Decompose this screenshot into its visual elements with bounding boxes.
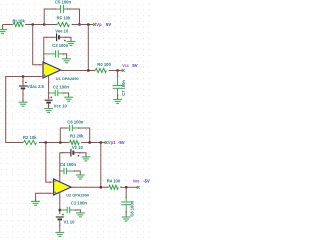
resistor Ri 10k: [12, 18, 27, 26]
svg-text:U1 OPA2890: U1 OPA2890: [56, 76, 79, 81]
wire: ground to Ri: [3, 24, 13, 26]
svg-text:Vee 10: Vee 10: [55, 29, 69, 34]
resistor R1 20k: [68, 133, 84, 144]
voltage source V2 10: [62, 145, 84, 157]
capacitor C2 100n: [49, 84, 69, 96]
wire: U1 V- pin down: [48, 76, 50, 100]
ground (C4): [76, 175, 85, 179]
ground (Vdac): [19, 102, 28, 106]
svg-text:U2 OPA2890: U2 OPA2890: [66, 193, 89, 198]
wire: feedback vertical: [87, 25, 89, 71]
capacitor C7 100n: [113, 75, 126, 95]
svg-text:-5V: -5V: [118, 140, 125, 145]
svg-text:R1 20k: R1 20k: [70, 133, 84, 138]
voltage source Vdac 2.5: [19, 82, 45, 90]
node Vcc 5V: [121, 63, 138, 72]
node Vp1 -5V: [103, 140, 124, 145]
ground (Vee+): [67, 42, 76, 46]
resistor R2 10k: [22, 135, 40, 145]
wire: C5 right branch: [68, 9, 81, 26]
wire: C3 to ground: [63, 54, 67, 59]
ground (C2): [64, 97, 73, 101]
wire: C2 to ground: [63, 93, 68, 97]
capacitor C6 100n: [65, 120, 83, 132]
wire: C7 to ground: [117, 95, 119, 99]
svg-text:V2 10: V2 10: [72, 145, 84, 150]
wire: Ri to node (junction to U1 -in): [26, 23, 44, 25]
svg-text:C7 100n: C7 100n: [121, 80, 126, 96]
svg-text:5V: 5V: [132, 63, 137, 68]
wire: Vee- to U1 V+ pin / C3 junction: [43, 37, 47, 62]
svg-text:Ri 10k: Ri 10k: [13, 18, 26, 23]
node: feedback junction left: [43, 23, 45, 25]
wire: R2 to R1: [39, 141, 69, 143]
wire: RF to Vp node: [72, 23, 93, 25]
wire: Vcc node to C7: [117, 71, 119, 76]
wire: C4 to ground: [75, 171, 81, 175]
wire: V2+ to ground: [80, 153, 86, 157]
capacitor C5 100n: [55, 0, 72, 13]
wire: U2 output: [71, 186, 108, 188]
capacitor C3 100n: [45, 43, 69, 58]
ground (V2+): [82, 157, 91, 161]
wire: U1 output: [61, 69, 95, 71]
svg-text:C5 100n: C5 100n: [55, 0, 72, 5]
resistor R0 100: [94, 62, 112, 73]
ground (Vcc10): [44, 109, 53, 113]
ground (V1): [55, 233, 64, 237]
svg-text:Vdac 2.5: Vdac 2.5: [27, 84, 45, 89]
op-amp U1 OPA2890: [40, 62, 79, 81]
svg-text:R4 100: R4 100: [107, 179, 121, 184]
op-amp U2 OPA2890: [50, 179, 89, 198]
svg-text:Vcc 10: Vcc 10: [54, 103, 68, 108]
svg-text:C6 100n: C6 100n: [67, 120, 84, 125]
wire: U2 V- pin down: [59, 192, 61, 215]
svg-text:C4 100n: C4 100n: [60, 162, 77, 167]
voltage source V1 10: [56, 214, 75, 225]
wire: U1 +in rail / left rail: [6, 75, 41, 142]
wire: inverting input feed: [33, 25, 41, 66]
svg-text:RF 10k: RF 10k: [57, 16, 71, 21]
wire: Vdac to ground: [22, 89, 24, 102]
wire: V2- to U2 V+ pin / C4 junction: [59, 153, 63, 182]
wire: U2 feedback vertical: [100, 143, 102, 188]
wire: U2 +in to ground: [35, 193, 51, 202]
svg-text:V1 10: V1 10: [64, 219, 76, 224]
svg-text:C2 100n: C2 100n: [53, 84, 70, 89]
wire: R0 to Vcc node: [109, 69, 121, 71]
wire: C5 left branch: [44, 9, 55, 25]
voltage source Vee 10: [46, 29, 69, 42]
resistor RF 10k: [56, 16, 73, 27]
resistor R4 100: [107, 179, 122, 190]
wire: Vdac top: [22, 77, 24, 86]
wire: C6 right branch: [79, 128, 90, 143]
wire: C8 to ground: [125, 212, 127, 217]
wire: R1 to Vp1 node: [82, 141, 104, 143]
ground (C1): [76, 213, 85, 217]
wire: V1 to ground: [59, 220, 61, 232]
svg-text:C3 100n: C3 100n: [52, 43, 69, 48]
capacitor C8 100n: [121, 197, 134, 217]
svg-text:C1 100n: C1 100n: [71, 200, 88, 205]
svg-text:Vp1: Vp1: [108, 140, 116, 145]
ground (C3): [62, 59, 71, 63]
svg-text:R2 10k: R2 10k: [23, 135, 37, 140]
wire: Vcc10 to ground: [48, 103, 50, 108]
wire: C6 left branch: [60, 128, 66, 143]
wire: U2 -in feed: [46, 143, 51, 183]
node Vp 5V: [92, 22, 111, 27]
ground (C8): [122, 217, 131, 221]
ground (C7): [113, 100, 122, 104]
svg-text:-5V: -5V: [143, 179, 150, 184]
svg-text:C8 100n: C8 100n: [130, 200, 135, 216]
ground (U2 +in): [31, 201, 40, 205]
wire: R4 to Vee node: [121, 186, 136, 188]
svg-text:R0 100: R0 100: [97, 62, 111, 67]
node Vee -5V: [133, 179, 150, 189]
wire: node to RF: [44, 24, 56, 26]
svg-text:Vee: Vee: [133, 179, 140, 184]
capacitor C1 100n: [60, 200, 87, 213]
wire: Vee node to C8: [125, 187, 127, 197]
wire: Vee+ to ground: [66, 37, 71, 41]
svg-text:Vcc: Vcc: [122, 63, 129, 68]
svg-text:5V: 5V: [106, 22, 111, 27]
voltage source Vcc 10: [45, 97, 68, 109]
capacitor C4 100n: [60, 162, 77, 174]
ground (Ri input): [0, 25, 7, 34]
wire: C1 to ground: [76, 210, 81, 213]
svg-text:Vp: Vp: [96, 22, 102, 27]
